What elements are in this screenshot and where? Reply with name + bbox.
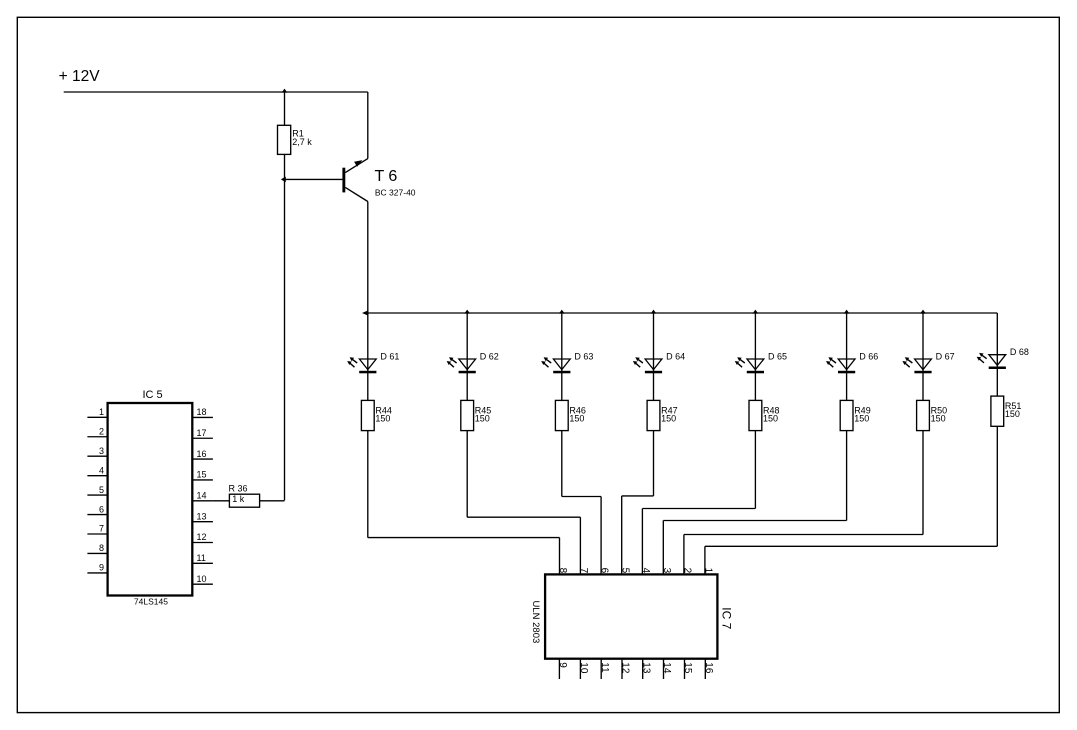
svg-text:9: 9 [557,662,568,668]
svg-text:2,7 k: 2,7 k [292,137,312,147]
svg-text:12: 12 [620,662,631,674]
svg-text:74LS145: 74LS145 [134,597,168,607]
svg-text:2: 2 [682,568,693,574]
svg-text:16: 16 [197,449,207,459]
svg-text:14: 14 [197,491,207,501]
svg-text:4: 4 [99,465,104,475]
svg-text:150: 150 [661,413,676,423]
svg-text:1: 1 [99,407,104,417]
svg-text:13: 13 [640,662,651,674]
svg-text:5: 5 [99,485,104,495]
svg-text:150: 150 [475,413,490,423]
svg-text:11: 11 [599,662,610,673]
svg-text:D 64: D 64 [666,351,685,361]
svg-text:18: 18 [197,407,207,417]
svg-text:8: 8 [557,568,568,574]
svg-text:10: 10 [578,662,589,674]
svg-text:6: 6 [599,568,610,574]
svg-text:8: 8 [99,543,104,553]
svg-text:3: 3 [99,446,104,456]
svg-text:IC 5: IC 5 [143,389,163,401]
svg-text:2: 2 [99,426,104,436]
svg-text:5: 5 [619,568,630,574]
svg-text:1: 1 [703,568,714,574]
svg-text:150: 150 [763,413,778,423]
svg-text:16: 16 [703,662,714,674]
svg-text:15: 15 [682,662,693,674]
svg-text:IC 7: IC 7 [720,607,734,629]
svg-text:D 62: D 62 [480,351,499,361]
svg-text:7: 7 [578,568,589,574]
svg-text:R 36: R 36 [229,483,248,493]
svg-text:150: 150 [1005,409,1020,419]
svg-text:3: 3 [661,568,672,574]
svg-text:D 67: D 67 [936,351,955,361]
svg-text:13: 13 [197,511,207,521]
svg-text:D 63: D 63 [574,351,593,361]
svg-text:14: 14 [661,662,672,674]
svg-text:6: 6 [99,504,104,514]
svg-text:15: 15 [197,470,207,480]
svg-text:11: 11 [197,553,206,563]
svg-text:10: 10 [197,574,207,584]
svg-text:9: 9 [99,563,104,573]
svg-text:D 65: D 65 [768,351,787,361]
svg-text:+ 12V: + 12V [59,68,101,85]
svg-text:BC 327-40: BC 327-40 [375,188,416,198]
svg-text:D 61: D 61 [380,351,399,361]
svg-text:150: 150 [854,413,869,423]
svg-text:T 6: T 6 [375,168,398,185]
svg-text:150: 150 [931,413,946,423]
svg-text:12: 12 [197,532,207,542]
svg-text:D 68: D 68 [1010,347,1029,357]
svg-text:1 k: 1 k [232,494,245,504]
svg-text:ULN 2803: ULN 2803 [530,601,541,644]
svg-text:150: 150 [569,413,584,423]
svg-text:17: 17 [197,428,207,438]
svg-text:D 66: D 66 [859,351,878,361]
svg-text:7: 7 [99,524,104,534]
svg-text:4: 4 [640,568,651,574]
svg-text:150: 150 [375,413,390,423]
